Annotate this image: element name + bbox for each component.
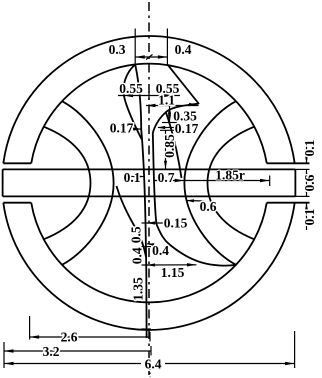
band top line (3, 168, 296, 170)
pole arc R1 (radius 1.85r) (184, 101, 236, 265)
ring slot cut line upper left (3, 162, 31, 164)
pole arc L2 (44, 127, 91, 240)
arrow 0.1 (points right at stem) (136, 175, 144, 178)
arrow 6.4 left (4, 362, 14, 365)
svg-text:6.4: 6.4 (145, 357, 162, 372)
arrow 0.35 down (168, 114, 171, 122)
svg-text:0.1: 0.1 (124, 170, 141, 185)
svg-text:1.1: 1.1 (158, 93, 175, 108)
right ext stub band bottom (295, 195, 309, 197)
dim line 6.4 right part (165, 363, 295, 365)
arrow 0.7 right (at 1.85r apex tick) (175, 179, 185, 182)
ext line 0.3 at x=135.2 (134, 29, 136, 65)
right slot dim vertical line lower 0.1 (306, 203, 308, 230)
arrow 0.17 left (points right at stem wall) (133, 127, 141, 130)
chain tick y=223 (142, 222, 152, 224)
svg-text:0.55: 0.55 (119, 81, 143, 96)
svg-text:0.17: 0.17 (175, 121, 199, 136)
dim line 2.6 (30, 336, 150, 338)
dim line 0.55 left/right (118, 95, 180, 97)
right slot dim vertical line band 0.6 (306, 169, 308, 196)
tick at 1.85r arc apex (183, 176, 185, 187)
svg-text:0.3: 0.3 (109, 42, 126, 57)
arrow 0.17 right (points left at stem wall) (157, 126, 165, 129)
inner ring top arc (31, 64, 267, 164)
arrow 0.55 right (points right) (163, 94, 173, 97)
svg-text:2.6: 2.6 (61, 330, 78, 345)
stem flare curve to ring junction (bottom right) (156, 224, 236, 266)
fin lower edge from tip to stem right wall (153, 104, 199, 134)
arrow 0.85 down (164, 161, 167, 169)
stem right wall (153, 133, 157, 224)
tick right end 2.6 (149, 332, 151, 342)
arrow 1.85r right (at radius tick) (260, 179, 270, 182)
ext stub 2.6 (29, 316, 31, 340)
dim line 0.15 (147, 222, 164, 224)
arrow 1.1 right (at fin tip) (189, 103, 199, 106)
inner ring bottom arc (31, 203, 267, 303)
electrode right flare line (top fin) (167, 64, 199, 104)
arrow right slot 0.1 upper (points down at cut line) (305, 155, 308, 163)
arrow 3.2 (points left at outer radius) (4, 349, 14, 352)
dim line 0.7 and 1.85r (154, 180, 270, 182)
tick centerline 0.55 (148, 91, 150, 100)
ring slot cut line lower left (3, 202, 31, 204)
chain line 0.35 vertical (169, 106, 171, 123)
ring slot cut line lower right (extends to right dim line) (267, 202, 310, 204)
chain tick y=122.5 (162, 122, 177, 124)
svg-text:0.85: 0.85 (162, 134, 177, 158)
arrow right slot 0.6 up (at band top) (305, 170, 308, 178)
right slot dim vertical line upper 0.1 (306, 146, 308, 163)
arrow 0.15 (points left) (147, 221, 155, 224)
outer circle top arc (3, 36, 294, 163)
arrow 1.1 left (146, 104, 156, 107)
electrode funnel inner-left wall + stem left wall running straight down (135, 64, 146, 338)
leader 0.6 (186, 200, 204, 203)
arrow 0.3 (points left at x=135.2) (135, 55, 145, 58)
ext stub bottom right (294, 331, 296, 368)
dim line 1.15 (146, 264, 197, 266)
chain tick y=246.6 (142, 246, 152, 248)
svg-text:0.1: 0.1 (302, 208, 317, 225)
dim line 3.2 (4, 350, 151, 352)
dim line 1.1 (146, 105, 199, 107)
svg-text:0.15: 0.15 (164, 216, 188, 231)
svg-text:0.6: 0.6 (200, 199, 217, 214)
centerline stub bottom (149, 366, 151, 377)
tick at 1.85r center (269, 176, 271, 187)
chain tick y=329 (142, 328, 152, 330)
arrow 0.4 (points right at x=167.4) (158, 55, 168, 58)
tick right end 3.2 (150, 346, 152, 356)
svg-text:1.85r: 1.85r (215, 168, 245, 183)
svg-text:1.15: 1.15 (161, 265, 185, 280)
svg-text:0.1: 0.1 (302, 139, 317, 156)
dim line 0.1 (129, 176, 145, 178)
ext stub bottom left (3, 342, 5, 368)
arrow 0.7 left (at stem right wall) (154, 179, 162, 182)
arrow 0.4 boxed leader (points left) (147, 243, 154, 246)
svg-text:0.4: 0.4 (130, 247, 145, 264)
band left cap (2, 169, 4, 196)
arrow 6.4 right (285, 362, 295, 365)
svg-text:0.5: 0.5 (129, 226, 144, 243)
merger curve from pole arc to stem (bottom left) (117, 186, 147, 257)
arrow 0.35 up (168, 106, 171, 114)
dim line 0.17 left (133, 128, 141, 130)
arrow right slot 0.1 lower (points up at cut line) (305, 203, 308, 211)
dim line 0.85 vertical (165, 130, 167, 169)
arrow 0.6 leader (points left at pole arc) (186, 199, 194, 202)
pole arc L1 (radius 1.85) (62, 101, 114, 265)
outer circle bottom arc (3, 203, 294, 330)
slant tick on 0.3/0.4 dim (146, 55, 153, 60)
band right cap (294, 169, 296, 196)
chain tick y=265 (142, 264, 152, 266)
svg-text:0.4: 0.4 (152, 243, 169, 258)
tick right end 0.55 (172, 91, 174, 99)
pole arc R2 (208, 127, 255, 240)
arrow 0.85 up (164, 131, 167, 139)
svg-text:0.7: 0.7 (158, 170, 175, 185)
svg-text:3.2: 3.2 (43, 344, 60, 359)
arrow 0.55 left (points left at crescent) (124, 94, 134, 97)
merger curve from pole arc toward fin (top right) (166, 113, 182, 179)
arrow 1.15 left (147, 263, 155, 266)
electrode funnel outer-left crescent (top) (123, 64, 141, 139)
leader 0.4 boxed (147, 243, 153, 246)
arrow 2.6 (points left at ring radius) (30, 335, 39, 338)
ext line 0.4 at x=167.4 (166, 29, 168, 65)
chain tick y=130.3 (160, 129, 177, 131)
svg-text:0.6: 0.6 (302, 174, 317, 191)
dim line 0.17 right (158, 127, 174, 129)
svg-text:0.4: 0.4 (175, 42, 192, 57)
dim line 6.4 left part (4, 363, 141, 365)
arrow right slot 0.6 down (at band bottom) (305, 188, 308, 196)
band bottom line (3, 195, 296, 197)
right ext stub band top (295, 168, 309, 170)
svg-text:0.17: 0.17 (110, 121, 134, 136)
arrow 1.15 right (at U curve) (187, 263, 197, 266)
dim line 0.3/0.4 (135, 56, 167, 58)
center line (vertical dash-dot axis) (148, 2, 150, 375)
svg-text:1.35: 1.35 (131, 277, 146, 301)
ring slot cut line upper right (extends to right dim line) (267, 162, 310, 164)
